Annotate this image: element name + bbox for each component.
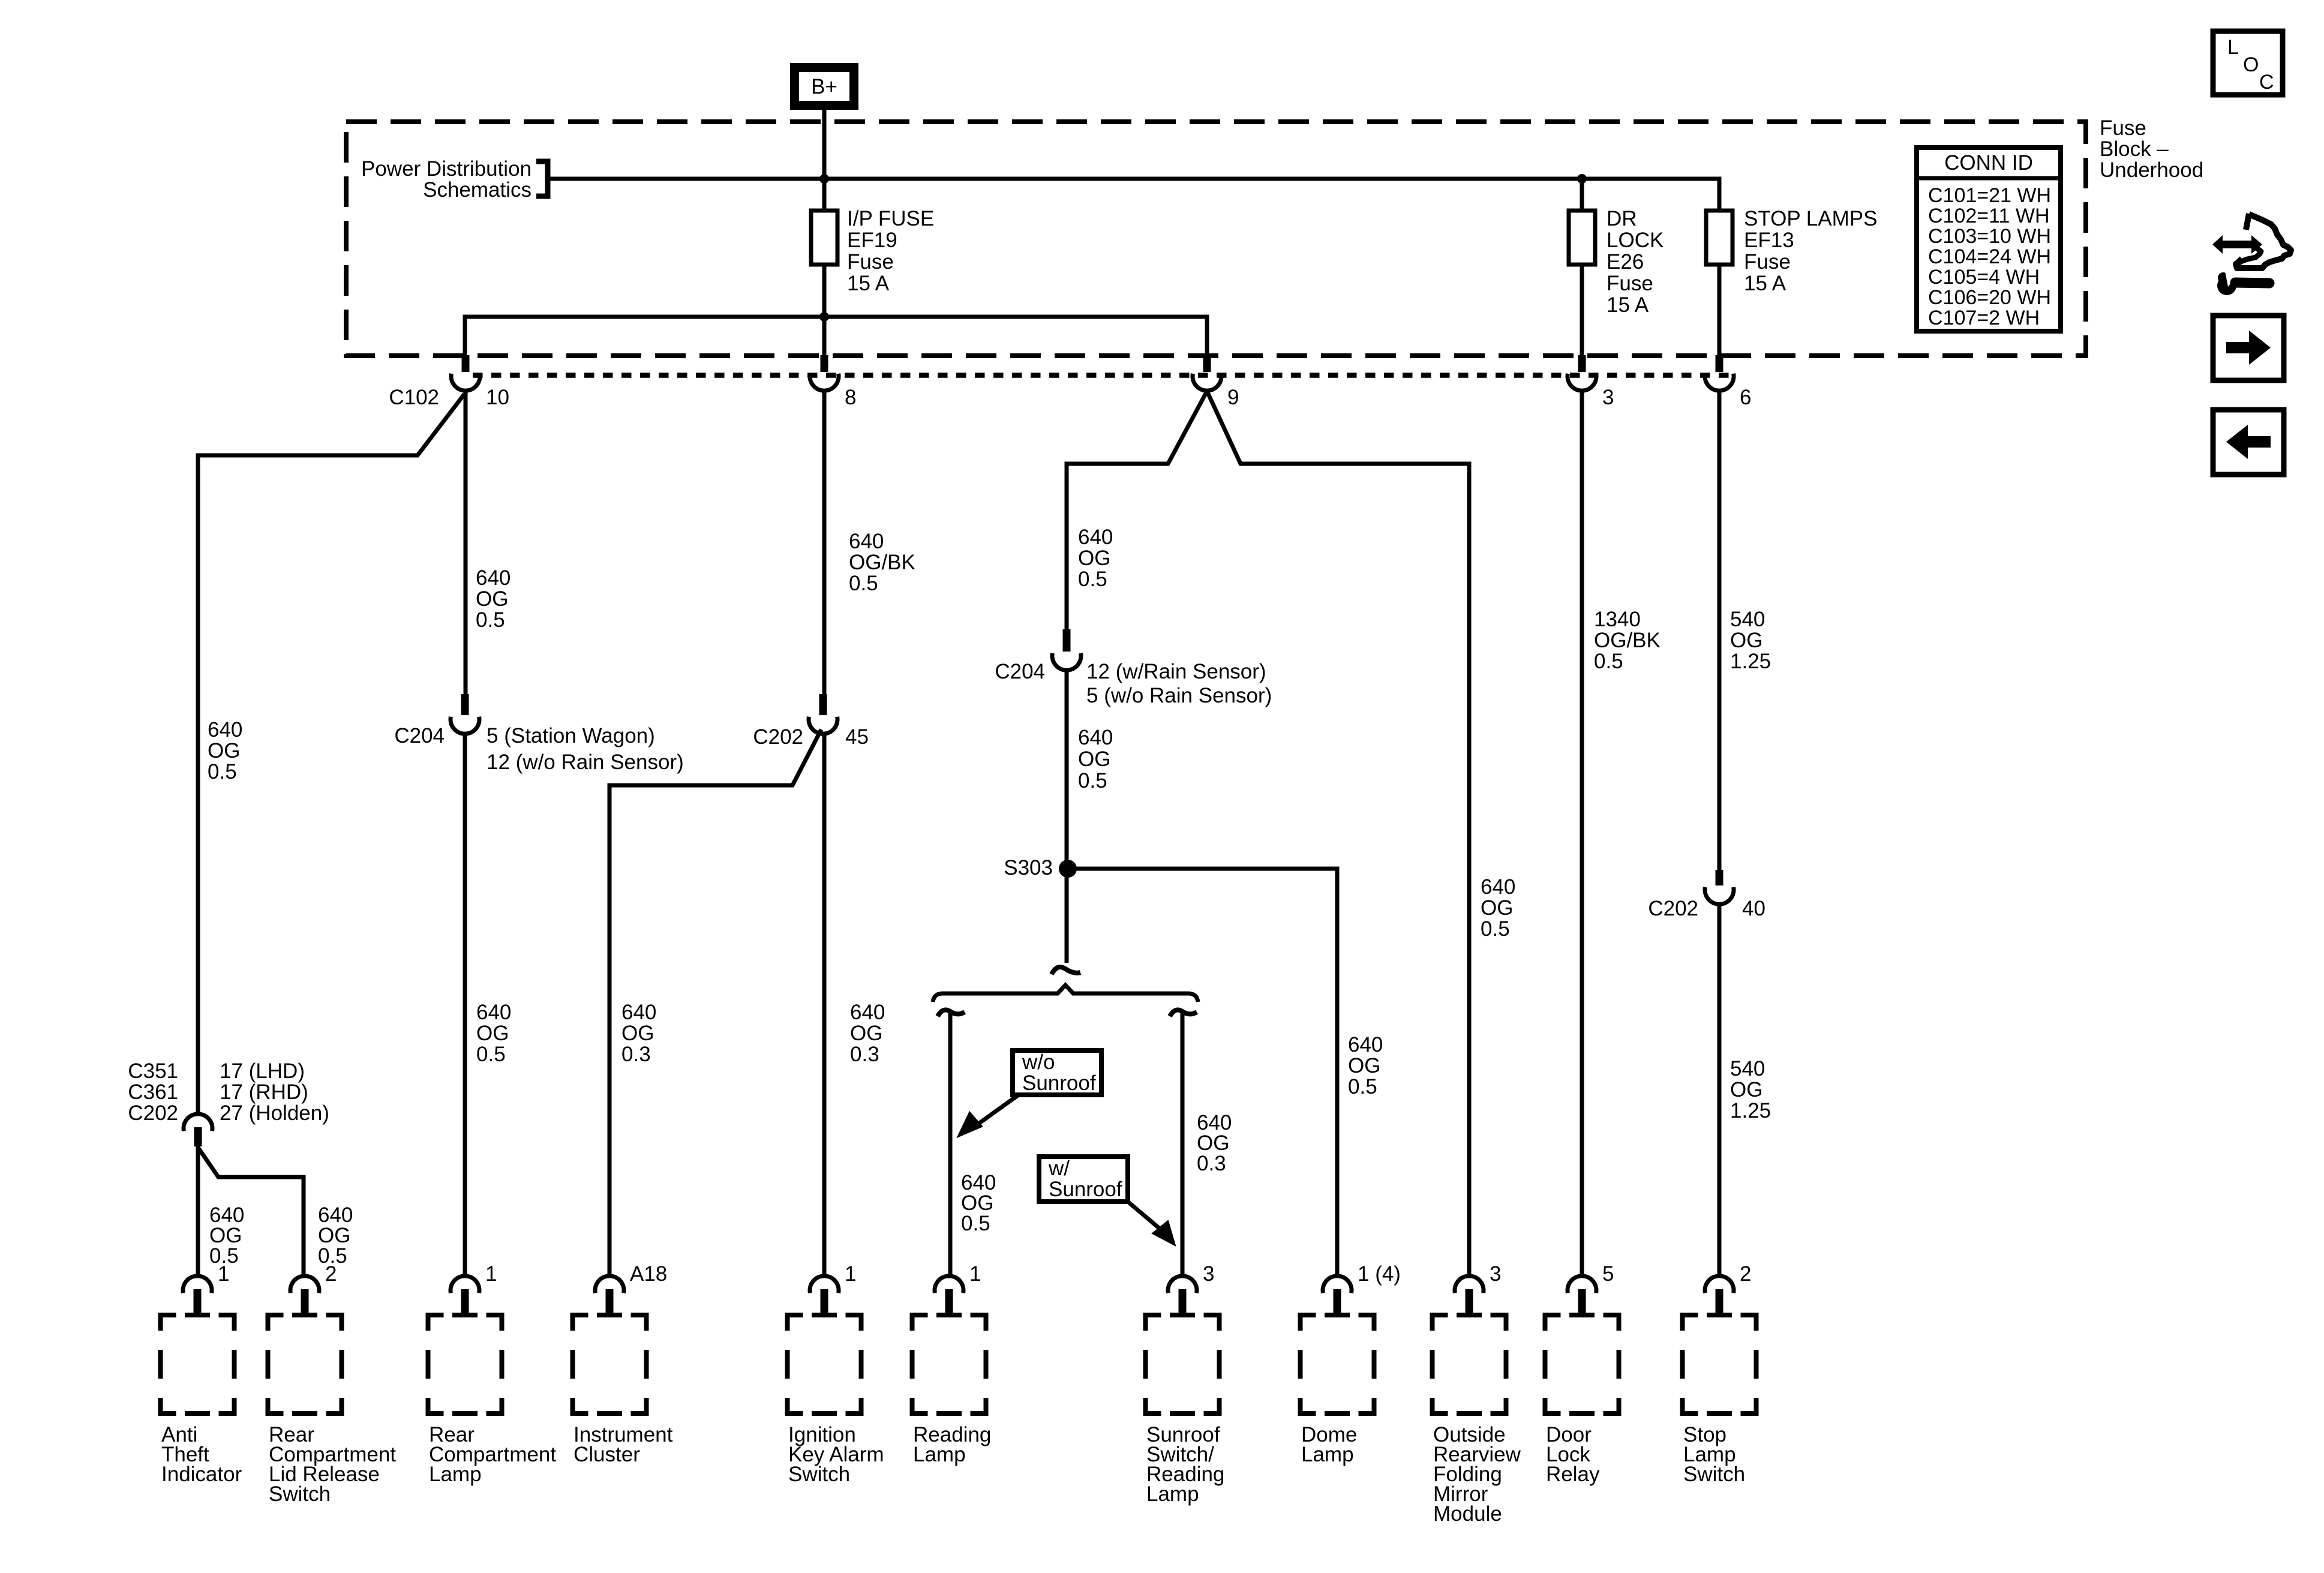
svg-text:E26: E26 bbox=[1607, 250, 1644, 274]
svg-text:C202: C202 bbox=[753, 725, 803, 749]
wire: pin 9 V split right to mirror module bbox=[1207, 391, 1469, 1276]
label: C204 (dome feed) bbox=[995, 660, 1045, 683]
svg-text:Switch: Switch bbox=[269, 1482, 331, 1506]
svg-text:OG: OG bbox=[1730, 1078, 1762, 1101]
fuse I/P FUSE EF19 15A bbox=[811, 211, 837, 265]
svg-text:OG: OG bbox=[1481, 896, 1513, 920]
arrow: w/o sunroof to reading lamp wire bbox=[957, 1095, 1019, 1140]
svg-text:0.5: 0.5 bbox=[208, 760, 237, 784]
wire: to anti theft indicator bbox=[196, 1145, 200, 1276]
label: 640 OG 0.3 (instrument cluster) bbox=[621, 1001, 656, 1066]
label: door lock relay bbox=[1546, 1423, 1600, 1486]
pin 6 label bbox=[1740, 386, 1751, 409]
label: 640 OG 0.5 (mirror module) bbox=[1481, 875, 1515, 941]
svg-text:0.5: 0.5 bbox=[476, 608, 505, 632]
pin 1 label (reading lamp) bbox=[969, 1262, 981, 1286]
callout box: w/ Sunroof bbox=[1039, 1157, 1128, 1202]
label: 540 OG 1.25 (lower) bbox=[1730, 1057, 1771, 1122]
svg-text:Lamp: Lamp bbox=[913, 1443, 966, 1466]
svg-text:0.5: 0.5 bbox=[961, 1212, 990, 1235]
svg-text:I/P FUSE: I/P FUSE bbox=[847, 207, 934, 230]
svg-text:5: 5 bbox=[1602, 1262, 1614, 1286]
wire: branch to lid release switch bbox=[199, 1148, 304, 1276]
callout box: w/o Sunroof bbox=[1013, 1050, 1101, 1095]
component box: rear compartment lamp bbox=[428, 1315, 502, 1413]
svg-text:DR: DR bbox=[1607, 207, 1637, 230]
wire break symbol above options brace bbox=[1052, 967, 1080, 974]
label: rear compartment lid release switch bbox=[269, 1423, 396, 1506]
svg-text:A18: A18 bbox=[630, 1262, 667, 1286]
svg-text:OG/BK: OG/BK bbox=[849, 551, 915, 574]
svg-text:1 (4): 1 (4) bbox=[1358, 1262, 1401, 1286]
svg-text:640: 640 bbox=[476, 566, 511, 590]
label: S303 bbox=[1004, 856, 1053, 879]
pin annotation: 5 (Station Wagon) / 12 (w/o Rain Sensor) bbox=[487, 724, 684, 774]
svg-text:0.3: 0.3 bbox=[850, 1043, 879, 1066]
label: 640 OG 0.5 (rear compartment lamp feed upper) bbox=[476, 566, 511, 632]
svg-text:1: 1 bbox=[485, 1262, 497, 1286]
svg-text:6: 6 bbox=[1740, 386, 1751, 409]
svg-text:40: 40 bbox=[1742, 897, 1765, 920]
power node B+ box bbox=[795, 68, 854, 106]
wire: S303 to dome lamp bbox=[1073, 869, 1337, 1276]
label: STOP LAMPS EF13 Fuse 15 A bbox=[1744, 207, 1877, 295]
svg-text:Underhood: Underhood bbox=[2100, 158, 2203, 182]
svg-text:C102=11 WH: C102=11 WH bbox=[1928, 205, 2050, 227]
svg-text:C204: C204 bbox=[394, 724, 445, 748]
svg-text:OG: OG bbox=[850, 1022, 882, 1045]
pin 3 label (outside rearview folding mirror module) bbox=[1490, 1262, 1501, 1286]
svg-text:Fuse: Fuse bbox=[2100, 116, 2146, 140]
label: anti theft indicator bbox=[161, 1423, 242, 1486]
component box: outside rearview folding mirror module bbox=[1433, 1315, 1506, 1413]
svg-text:w/o: w/o bbox=[1022, 1050, 1055, 1074]
svg-text:640: 640 bbox=[1078, 726, 1113, 749]
svg-text:EF19: EF19 bbox=[847, 229, 897, 252]
wire: pin 8 down to C202 bbox=[822, 391, 827, 694]
svg-text:O: O bbox=[2243, 53, 2259, 76]
svg-text:640: 640 bbox=[1078, 526, 1113, 549]
svg-text:Fuse: Fuse bbox=[847, 250, 894, 274]
connector C102 pin 9 bbox=[1193, 355, 1221, 391]
CONN ID table bbox=[1917, 148, 2061, 331]
svg-text:2: 2 bbox=[325, 1262, 337, 1286]
svg-text:9: 9 bbox=[1227, 386, 1239, 409]
svg-text:3: 3 bbox=[1203, 1262, 1214, 1286]
wire: pin 9 V split left to C204 bbox=[1067, 391, 1207, 629]
label: C202 bbox=[753, 725, 803, 749]
svg-text:0.5: 0.5 bbox=[1078, 769, 1107, 792]
pin 8 label bbox=[845, 386, 856, 409]
svg-text:OG: OG bbox=[1078, 547, 1110, 570]
wire: C202/45 down to ignition key alarm switch bbox=[822, 734, 827, 1276]
svg-text:C105=4 WH: C105=4 WH bbox=[1928, 266, 2040, 289]
connector C204 pin 5/12 (rear lamp feed) bbox=[451, 694, 479, 734]
svg-text:640: 640 bbox=[849, 530, 884, 553]
pin 1 (4) label (dome lamp) bbox=[1358, 1262, 1401, 1286]
icon: vehicle service (car outline, double arrow, wrench) bbox=[2212, 214, 2291, 295]
wire: brace to sunroof switch (hooked top) bbox=[1170, 1010, 1197, 1276]
wire: below DR LOCK fuse bbox=[1580, 265, 1584, 355]
label: instrument cluster bbox=[574, 1423, 673, 1466]
svg-text:3: 3 bbox=[1602, 386, 1614, 409]
junction at B+ / bus bbox=[819, 174, 829, 184]
pin 10 label bbox=[486, 386, 509, 409]
label: 640 OG 0.5 (left run upper) bbox=[208, 718, 242, 784]
svg-text:C202: C202 bbox=[128, 1101, 178, 1125]
svg-text:1340: 1340 bbox=[1594, 608, 1641, 631]
svg-text:C104=24 WH: C104=24 WH bbox=[1928, 245, 2051, 268]
label: dome lamp bbox=[1301, 1423, 1357, 1466]
svg-text:LOCK: LOCK bbox=[1607, 229, 1664, 252]
svg-text:Fuse: Fuse bbox=[1607, 272, 1653, 295]
svg-text:OG/BK: OG/BK bbox=[1594, 629, 1661, 652]
svg-text:Indicator: Indicator bbox=[161, 1463, 242, 1486]
svg-text:B+: B+ bbox=[811, 75, 837, 98]
svg-text:15 A: 15 A bbox=[847, 272, 890, 295]
svg-text:10: 10 bbox=[486, 386, 509, 409]
svg-text:C351: C351 bbox=[128, 1059, 178, 1083]
svg-text:0.3: 0.3 bbox=[1197, 1152, 1226, 1175]
label: rear compartment lamp bbox=[429, 1423, 556, 1486]
label: DR LOCK E26 Fuse 15 A bbox=[1607, 207, 1664, 317]
connector at instrument cluster bbox=[595, 1276, 624, 1315]
connector C351/C361/C202 inline bbox=[184, 1114, 212, 1146]
svg-text:3: 3 bbox=[1490, 1262, 1501, 1286]
label: stop lamp switch bbox=[1683, 1423, 1745, 1486]
label: 640 OG 0.5 (dome feed upper) bbox=[1078, 526, 1113, 591]
junction at I/P fuse / inner bus bbox=[819, 312, 829, 322]
svg-text:Switch: Switch bbox=[788, 1463, 850, 1486]
svg-text:STOP LAMPS: STOP LAMPS bbox=[1744, 207, 1877, 230]
pin 2 label (rear compartment lid release switch) bbox=[325, 1262, 337, 1286]
label: 640 OG 0.5 (rear compartment lamp lower) bbox=[476, 1001, 511, 1066]
svg-text:S303: S303 bbox=[1004, 856, 1053, 879]
svg-text:C101=21 WH: C101=21 WH bbox=[1928, 184, 2051, 207]
svg-text:540: 540 bbox=[1730, 608, 1765, 631]
connector at reading lamp bbox=[935, 1276, 963, 1315]
wire: B+ feed down into fuse block bbox=[822, 110, 827, 211]
options brace (reading lamp / sunroof switch) bbox=[933, 985, 1198, 1002]
svg-text:0.3: 0.3 bbox=[621, 1043, 651, 1066]
connector at rear compartment lid release switch bbox=[290, 1276, 319, 1315]
wire: brace to reading lamp (hooked top) bbox=[938, 1010, 965, 1276]
pin A18 label (instrument cluster) bbox=[630, 1262, 667, 1286]
svg-text:C202: C202 bbox=[1648, 897, 1698, 920]
svg-text:OG: OG bbox=[476, 1022, 509, 1045]
svg-text:8: 8 bbox=[845, 386, 856, 409]
connector at stop lamp switch bbox=[1705, 1276, 1734, 1315]
svg-text:OG: OG bbox=[476, 587, 508, 611]
pin 40 label bbox=[1742, 897, 1765, 920]
svg-text:640: 640 bbox=[1348, 1033, 1383, 1056]
svg-text:Schematics: Schematics bbox=[423, 178, 532, 202]
pin 2 label (stop lamp switch) bbox=[1740, 1262, 1751, 1286]
connector C202 pin 45 bbox=[809, 694, 837, 734]
label: 640 OG/BK 0.5 bbox=[849, 530, 915, 595]
svg-text:0.5: 0.5 bbox=[849, 572, 878, 595]
svg-text:640: 640 bbox=[1481, 875, 1515, 899]
svg-text:Block –: Block – bbox=[2100, 137, 2169, 161]
svg-text:5 (Station Wagon): 5 (Station Wagon) bbox=[487, 724, 655, 748]
label: Fuse Block - Underhood bbox=[2100, 116, 2203, 182]
svg-text:C361: C361 bbox=[128, 1080, 178, 1104]
svg-text:640: 640 bbox=[850, 1001, 885, 1024]
wire: branch to instrument cluster bbox=[609, 730, 821, 1276]
svg-text:Sunroof: Sunroof bbox=[1049, 1178, 1122, 1201]
icon: LOC locator box bbox=[2213, 31, 2283, 95]
label: outside rearview folding mirror module bbox=[1433, 1423, 1521, 1526]
svg-text:0.5: 0.5 bbox=[1348, 1075, 1377, 1098]
connector at dome lamp bbox=[1323, 1276, 1352, 1315]
fuse DR LOCK E26 15A bbox=[1569, 211, 1595, 265]
svg-text:27 (Holden): 27 (Holden) bbox=[220, 1101, 329, 1125]
pin annotation: 17 (LHD) 17 (RHD) 27 (Holden) bbox=[220, 1059, 329, 1125]
connector C102 pin 3 bbox=[1568, 355, 1596, 391]
label: 640 OG 0.5 (anti theft) bbox=[209, 1203, 244, 1268]
splice S303 bbox=[1059, 860, 1077, 878]
svg-text:C: C bbox=[2259, 71, 2274, 94]
junction at DR LOCK fuse / bus bbox=[1577, 174, 1587, 184]
svg-text:15 A: 15 A bbox=[1607, 293, 1649, 317]
arrow: w/ sunroof to sunroof switch wire bbox=[1128, 1202, 1175, 1245]
svg-text:640: 640 bbox=[476, 1001, 511, 1024]
fuse STOP LAMPS EF13 15A bbox=[1706, 211, 1733, 265]
wire: drop to DR LOCK fuse bbox=[1580, 179, 1584, 211]
svg-text:5 (w/o Rain Sensor): 5 (w/o Rain Sensor) bbox=[1086, 684, 1272, 707]
svg-text:1.25: 1.25 bbox=[1730, 1099, 1771, 1122]
fuse block - underhood dashed boundary bbox=[346, 122, 2086, 356]
svg-text:CONN ID: CONN ID bbox=[1944, 151, 2033, 175]
svg-text:OG: OG bbox=[208, 739, 240, 763]
wire: C204 down to rear compartment lamp bbox=[463, 734, 467, 1276]
pin 1 label (ignition key alarm switch) bbox=[845, 1262, 856, 1286]
wire: pin 6 to C202/40 bbox=[1718, 391, 1722, 870]
connector C102 pin 8 bbox=[810, 355, 839, 391]
svg-text:1: 1 bbox=[845, 1262, 856, 1286]
wire: pin 10 straight down to C204 bbox=[464, 391, 468, 694]
wire: below STOP LAMPS fuse bbox=[1718, 265, 1722, 355]
svg-text:15 A: 15 A bbox=[1744, 272, 1786, 295]
svg-text:12 (w/o Rain Sensor): 12 (w/o Rain Sensor) bbox=[487, 751, 684, 774]
svg-text:Relay: Relay bbox=[1546, 1463, 1600, 1486]
label: C351 C361 C202 bbox=[128, 1059, 178, 1125]
svg-text:45: 45 bbox=[845, 725, 869, 749]
pin 45 label bbox=[845, 725, 869, 749]
connector C202 pin 40 bbox=[1705, 870, 1734, 904]
svg-text:Switch: Switch bbox=[1683, 1463, 1745, 1486]
label: 640 OG 0.5 (dome lamp) bbox=[1348, 1033, 1383, 1098]
label: C202 (stop lamp) bbox=[1648, 897, 1698, 920]
label: C102 bbox=[389, 386, 439, 409]
svg-text:C102: C102 bbox=[389, 386, 439, 409]
svg-text:17 (RHD): 17 (RHD) bbox=[220, 1080, 308, 1104]
svg-text:C204: C204 bbox=[995, 660, 1045, 683]
svg-text:L: L bbox=[2227, 36, 2239, 59]
component box: dome lamp bbox=[1301, 1315, 1374, 1413]
connector at rear compartment lamp bbox=[451, 1276, 479, 1315]
pin 1 label (anti theft indicator) bbox=[218, 1262, 229, 1286]
connector at sunroof switch/reading lamp bbox=[1168, 1276, 1197, 1315]
component box: rear compartment lid release switch bbox=[268, 1315, 342, 1413]
svg-text:640: 640 bbox=[621, 1001, 656, 1024]
component box: anti theft indicator bbox=[161, 1315, 235, 1413]
pin annotation: 12 (w/Rain Sensor) 5 (w/o Rain Sensor) bbox=[1086, 660, 1272, 707]
svg-text:640: 640 bbox=[208, 718, 242, 742]
svg-text:540: 540 bbox=[1730, 1057, 1765, 1080]
svg-text:0.5: 0.5 bbox=[1481, 917, 1510, 941]
svg-text:Fuse: Fuse bbox=[1744, 250, 1791, 274]
svg-text:Sunroof: Sunroof bbox=[1022, 1071, 1096, 1095]
connector C204 pin 12/5 (dome feed) bbox=[1052, 629, 1081, 670]
pin 3 label bbox=[1602, 386, 1614, 409]
component box: instrument cluster bbox=[573, 1315, 647, 1413]
svg-text:C106=20 WH: C106=20 WH bbox=[1928, 286, 2051, 309]
svg-text:1: 1 bbox=[218, 1262, 229, 1286]
component box: sunroof switch/reading lamp bbox=[1146, 1315, 1220, 1413]
icon: back arrow box bbox=[2213, 410, 2284, 475]
svg-text:1.25: 1.25 bbox=[1730, 650, 1771, 673]
svg-text:Module: Module bbox=[1433, 1502, 1502, 1526]
svg-text:EF13: EF13 bbox=[1744, 229, 1794, 252]
label: reading lamp bbox=[913, 1423, 991, 1466]
connector at door lock relay bbox=[1568, 1276, 1596, 1315]
label: ignition key alarm switch bbox=[788, 1423, 884, 1486]
svg-text:0.5: 0.5 bbox=[1594, 650, 1623, 673]
svg-text:w/: w/ bbox=[1048, 1157, 1070, 1180]
svg-text:1: 1 bbox=[969, 1262, 981, 1286]
wire: bus from schematics bracket to fuses bbox=[548, 179, 1719, 211]
connector at outside rearview folding mirror module bbox=[1455, 1276, 1484, 1315]
svg-text:OG: OG bbox=[621, 1022, 654, 1045]
svg-text:0.5: 0.5 bbox=[1078, 568, 1107, 591]
pin 1 label (rear compartment lamp) bbox=[485, 1262, 497, 1286]
connector at ignition key alarm switch bbox=[810, 1276, 839, 1315]
pin 9 label bbox=[1227, 386, 1239, 409]
component box: ignition key alarm switch bbox=[788, 1315, 861, 1413]
svg-text:Cluster: Cluster bbox=[574, 1443, 640, 1466]
svg-text:17 (LHD): 17 (LHD) bbox=[220, 1059, 305, 1083]
wire: branch from C102 pin 10 to left run bbox=[198, 394, 464, 1114]
svg-text:OG: OG bbox=[1078, 748, 1110, 771]
pin 3 label (sunroof switch/reading lamp) bbox=[1203, 1262, 1214, 1286]
wire: C204 down to splice S303 bbox=[1065, 670, 1069, 963]
label: 1340 OG/BK 0.5 bbox=[1594, 608, 1661, 673]
svg-text:Power Distribution: Power Distribution bbox=[361, 157, 532, 181]
label: C204 bbox=[394, 724, 445, 748]
label: sunroof switch/reading lamp bbox=[1146, 1423, 1224, 1506]
component box: stop lamp switch bbox=[1683, 1315, 1756, 1413]
connector at anti theft indicator bbox=[183, 1276, 212, 1315]
svg-text:Lamp: Lamp bbox=[1146, 1482, 1199, 1506]
label: 640 OG 0.3 (ignition key alarm) bbox=[850, 1001, 885, 1066]
label: I/P FUSE EF19 Fuse 15 A bbox=[847, 207, 934, 295]
svg-text:OG: OG bbox=[1348, 1054, 1380, 1077]
connector line C102 (dotted) bbox=[473, 373, 1737, 378]
connector C102 pin 6 bbox=[1705, 355, 1734, 391]
component box: door lock relay bbox=[1545, 1315, 1619, 1413]
svg-text:Lamp: Lamp bbox=[429, 1463, 482, 1486]
icon: forward arrow box bbox=[2213, 316, 2284, 380]
label: Power Distribution Schematics bbox=[361, 157, 532, 202]
svg-text:2: 2 bbox=[1740, 1262, 1751, 1286]
svg-text:C103=10 WH: C103=10 WH bbox=[1928, 225, 2051, 248]
svg-text:12 (w/Rain Sensor): 12 (w/Rain Sensor) bbox=[1086, 660, 1266, 683]
wire: inner bus to C102 pins 10 and 9 bbox=[465, 317, 1207, 355]
svg-text:OG: OG bbox=[1730, 629, 1762, 652]
label: 640 OG 0.5 (dome feed lower) bbox=[1078, 726, 1113, 792]
wire: C202/40 down to stop lamp switch bbox=[1718, 904, 1722, 1276]
label: 540 OG 1.25 (upper) bbox=[1730, 608, 1771, 673]
pin 5 label (door lock relay) bbox=[1602, 1262, 1614, 1286]
wire: below I/P fuse to inner bus bbox=[822, 265, 827, 355]
component box: reading lamp bbox=[912, 1315, 986, 1413]
svg-text:C107=2 WH: C107=2 WH bbox=[1928, 307, 2040, 329]
label: 640 OG 0.3 (sunroof switch) bbox=[1197, 1111, 1232, 1175]
svg-text:0.5: 0.5 bbox=[476, 1043, 506, 1066]
label: 640 OG 0.5 (lid release) bbox=[318, 1203, 353, 1268]
connector C102 pin 10 bbox=[451, 355, 480, 391]
bracket to Power Distribution Schematics bbox=[536, 161, 548, 196]
wire: pin 3 to door lock relay bbox=[1580, 391, 1584, 1276]
label: 640 OG 0.5 (reading lamp) bbox=[961, 1171, 996, 1235]
svg-text:Lamp: Lamp bbox=[1301, 1443, 1354, 1466]
